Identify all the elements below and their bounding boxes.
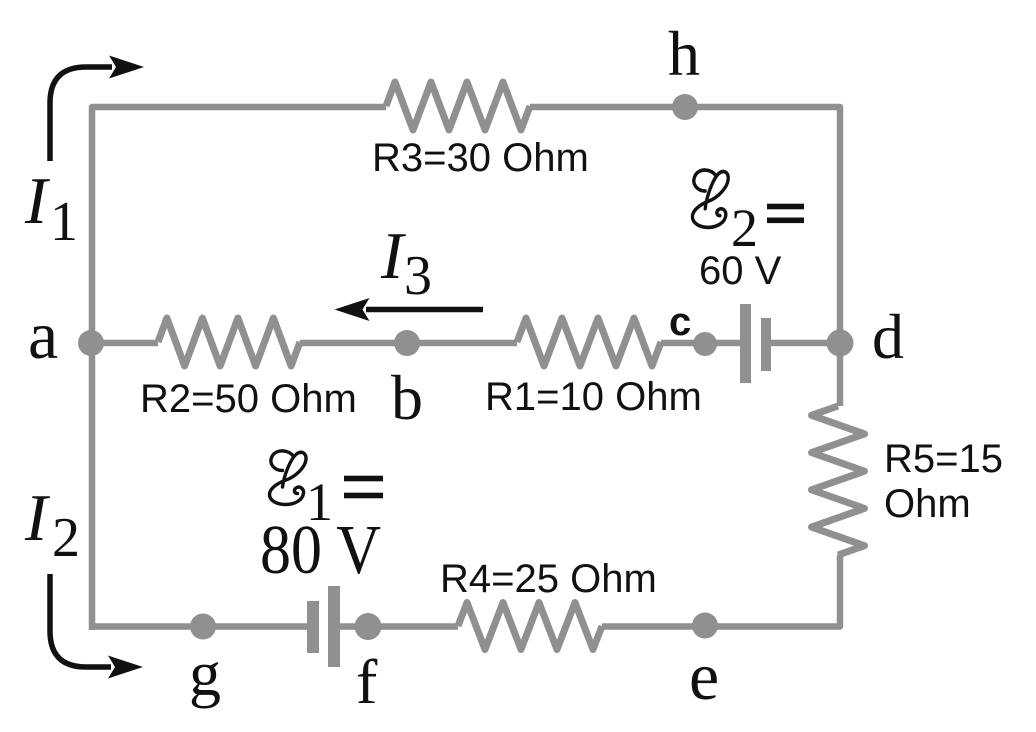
svg-text:I: I [380,219,406,293]
svg-text:3: 3 [404,245,432,307]
svg-text:b: b [391,362,423,433]
svg-text:80 V: 80 V [260,512,381,589]
svg-text:d: d [872,301,904,372]
svg-text:2: 2 [731,198,758,258]
svg-text:R5=15: R5=15 [884,437,1003,481]
svg-text:R3=30 Ohm: R3=30 Ohm [372,136,589,180]
svg-text:a: a [28,297,58,373]
svg-text:R4=25 Ohm: R4=25 Ohm [440,557,657,601]
svg-text:h: h [668,18,700,89]
svg-text:f: f [356,646,378,717]
svg-text:g: g [189,638,221,709]
svg-text:Ohm: Ohm [884,482,971,526]
svg-text:2: 2 [52,507,80,569]
svg-text:I: I [24,481,50,555]
svg-text:c: c [669,300,691,344]
svg-text:1: 1 [50,191,78,253]
svg-text:I: I [24,164,50,238]
svg-text:e: e [689,638,719,714]
svg-text:R1=10 Ohm: R1=10 Ohm [485,375,702,419]
svg-text:R2=50 Ohm: R2=50 Ohm [140,377,357,421]
